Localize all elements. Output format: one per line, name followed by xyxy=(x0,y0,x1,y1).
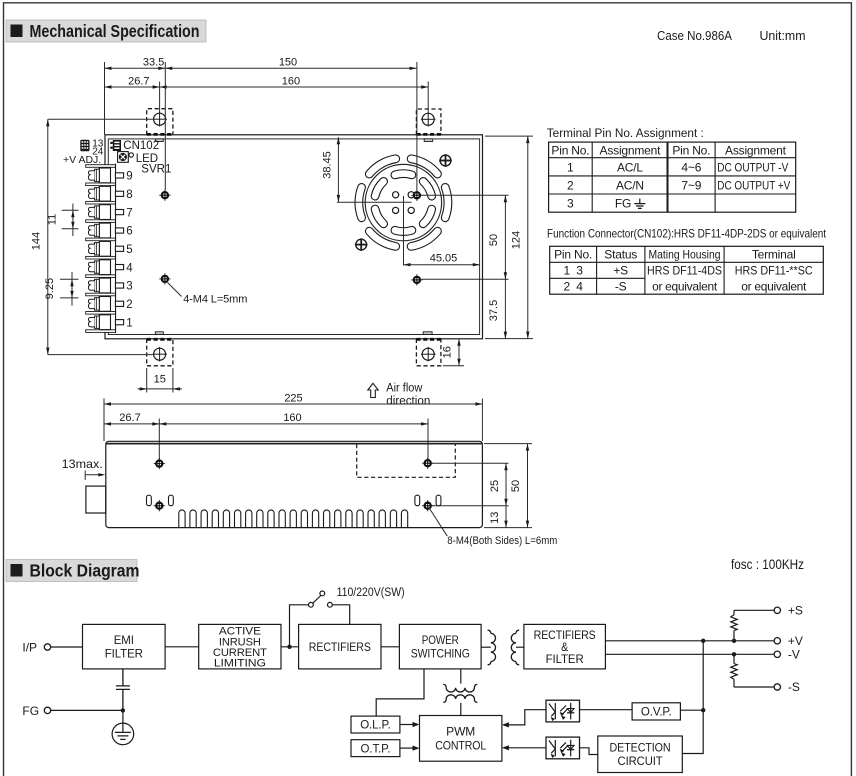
chassis edge tab bottom-left xyxy=(155,332,163,335)
svg-text:Mating Housing: Mating Housing xyxy=(649,248,721,262)
svg-text:AC/N: AC/N xyxy=(616,178,644,192)
resistor on +S sense line xyxy=(731,610,737,641)
side-view screw top-right 8-M4 xyxy=(422,458,433,469)
svg-text:Terminal Pin No. Assignment :: Terminal Pin No. Assignment : xyxy=(547,126,704,140)
node FG junction xyxy=(121,708,125,712)
DETECTION CIRCUIT block xyxy=(598,736,683,773)
terminal 3 xyxy=(88,278,123,293)
svg-text:Mechanical Specification: Mechanical Specification xyxy=(30,21,200,41)
svg-text:6: 6 xyxy=(126,226,132,238)
svg-text:+S: +S xyxy=(613,264,628,278)
wire +S sense line xyxy=(734,609,774,611)
svg-text:+S: +S xyxy=(788,603,803,617)
terminal 1 xyxy=(88,315,123,330)
mating connector icon (13/24 pins) xyxy=(80,140,89,152)
air flow direction arrow xyxy=(368,383,378,397)
svg-text:Case No.986A: Case No.986A xyxy=(657,28,732,43)
node junction +V to +S resistor xyxy=(732,639,736,643)
svg-text:110/220V(SW): 110/220V(SW) xyxy=(337,587,405,599)
side-view dimension 160 xyxy=(159,423,428,425)
side-view dimension 13 xyxy=(505,506,507,528)
header bullet square xyxy=(11,564,23,577)
terminal 5 xyxy=(88,241,123,256)
label 8-M4(Both Sides) L=6mm with leader xyxy=(430,509,448,537)
svg-text:144: 144 xyxy=(31,232,43,250)
fan mounting screw bottom-left xyxy=(356,239,367,250)
svg-text:150: 150 xyxy=(279,57,297,69)
svg-text:38.45: 38.45 xyxy=(321,151,333,179)
wire power switching to output choke xyxy=(460,669,462,684)
EMI FILTER block xyxy=(83,624,166,669)
side-view keyhole slot right A xyxy=(415,495,420,506)
side-view screw top-left 8-M4 xyxy=(154,458,165,469)
FG earth symbol in table xyxy=(634,199,645,209)
extension lines for top dimensions xyxy=(104,62,106,135)
RECTIFIERS block xyxy=(299,624,381,669)
svg-text:-S: -S xyxy=(788,680,800,694)
svg-text:5: 5 xyxy=(126,244,132,256)
svg-text:FG: FG xyxy=(22,704,39,718)
svg-text:Status: Status xyxy=(604,248,637,262)
photocoupler U2 xyxy=(546,737,580,759)
svg-text:SVR1: SVR1 xyxy=(141,163,171,175)
chassis screw top-right 4-M4 xyxy=(411,190,422,201)
LED indicator circle xyxy=(129,153,133,157)
mounting bracket bottom-left (dashed) xyxy=(147,339,173,366)
node junction -V to -S resistor xyxy=(732,652,736,656)
ACTIVE INRUSH CURRENT LIMITING block xyxy=(199,624,281,669)
dimension 33.5 (top) xyxy=(105,67,417,69)
sense bus from +V rail to detection circuit xyxy=(682,641,703,754)
bracket hole bottom-left xyxy=(154,348,166,360)
mounting bracket top-left (dashed) xyxy=(147,109,173,135)
protective earth symbol xyxy=(112,723,134,745)
svg-text:3: 3 xyxy=(126,281,132,293)
svg-text:+V ADJ.: +V ADJ. xyxy=(63,154,101,166)
PWM CONTROL block xyxy=(420,716,502,762)
wire rectifiers to power switching xyxy=(381,646,399,648)
svg-text:1: 1 xyxy=(126,317,132,329)
svg-text:DETECTION: DETECTION xyxy=(610,743,671,755)
svg-text:DC OUTPUT -V: DC OUTPUT -V xyxy=(717,160,788,174)
fan centerline vertical xyxy=(403,196,405,266)
wire choke to PWM control xyxy=(460,703,462,716)
wire junction to voltage select switch xyxy=(290,605,309,647)
svg-text:CIRCUIT: CIRCUIT xyxy=(618,756,663,768)
bracket hole top-left xyxy=(154,113,166,125)
section header bar: Mechanical Specification xyxy=(6,20,206,42)
side-view dashed cutout region xyxy=(357,444,456,477)
terminal block front plate line xyxy=(115,164,117,333)
svg-text:O.L.P.: O.L.P. xyxy=(360,720,391,732)
svg-text:8-M4(Both Sides) L=6mm: 8-M4(Both Sides) L=6mm xyxy=(447,535,557,547)
svg-text:Assignment: Assignment xyxy=(725,143,787,157)
wire junction to earth symbol xyxy=(122,710,124,723)
node junction +V to OVP bus xyxy=(701,639,705,643)
svg-text:O.T.P.: O.T.P. xyxy=(361,743,391,755)
svg-text:Function Connector(CN102):HRS: Function Connector(CN102):HRS DF11-4DP-2… xyxy=(547,227,827,241)
svg-text:Block Diagram: Block Diagram xyxy=(30,561,140,581)
svg-text:25: 25 xyxy=(489,480,501,492)
Y-capacitor EMI to ground xyxy=(116,669,130,711)
svg-text:2: 2 xyxy=(567,178,574,192)
svg-text:Assignment: Assignment xyxy=(600,143,662,157)
wire OVP to bus xyxy=(680,709,703,711)
svg-text:37.5: 37.5 xyxy=(488,300,500,321)
svg-text:LIMITING: LIMITING xyxy=(214,658,266,670)
svg-text:or equivalent: or equivalent xyxy=(741,280,807,294)
svg-text:Pin No.: Pin No. xyxy=(554,248,592,262)
side-view dimension 25 xyxy=(505,463,507,506)
side-view dimension extension lines xyxy=(103,399,105,442)
header bullet square xyxy=(11,25,23,38)
svg-text:11: 11 xyxy=(47,214,59,225)
side-view screw bottom-left 8-M4 xyxy=(154,500,165,511)
side-view screw bottom-right 8-M4 xyxy=(422,500,433,511)
side-view keyhole slot right B xyxy=(436,495,441,506)
svg-text:HRS DF11-**SC: HRS DF11-**SC xyxy=(735,264,813,278)
wire OLP to PWM with arrow xyxy=(400,724,416,726)
connector CN102 icon xyxy=(110,140,121,151)
svg-text:&: & xyxy=(561,642,568,654)
svg-text:4: 4 xyxy=(126,262,133,274)
chassis edge tab top-left xyxy=(155,139,163,142)
bracket hole bottom-right xyxy=(422,348,434,360)
wire power switching to transformer xyxy=(481,646,491,648)
svg-text:13: 13 xyxy=(489,512,501,524)
svg-text:FILTER: FILTER xyxy=(105,649,143,661)
transformer T1 primary winding xyxy=(488,630,496,665)
label 4-M4 L=5mm with leader xyxy=(168,283,182,297)
wire inrush to rectifiers xyxy=(281,646,299,648)
svg-text:FILTER: FILTER xyxy=(546,654,584,666)
svg-text:9.25: 9.25 xyxy=(44,278,56,299)
svg-text:8: 8 xyxy=(126,189,132,201)
chassis screw top-left 4-M4 xyxy=(159,190,170,201)
svg-text:-S: -S xyxy=(615,280,627,294)
output terminal +V xyxy=(774,638,780,644)
O.L.P. block xyxy=(351,716,400,733)
terminal pin assignment table grid xyxy=(549,142,796,212)
svg-text:SWITCHING: SWITCHING xyxy=(411,649,470,661)
wire FG to junction xyxy=(51,709,123,711)
potentiometer SVR1 symbol xyxy=(118,152,129,163)
svg-text:RECTIFIERS: RECTIFIERS xyxy=(309,642,371,654)
transformer T1 secondary winding xyxy=(511,630,519,665)
svg-text:fosc : 100KHz: fosc : 100KHz xyxy=(731,557,804,572)
svg-text:POWER: POWER xyxy=(422,635,459,647)
O.T.P. block xyxy=(351,740,400,757)
function connector table grid xyxy=(550,246,824,294)
terminal 2 xyxy=(88,297,123,312)
fan centerline horizontal xyxy=(337,201,412,203)
dimension 9.25 (terminal pitch) xyxy=(71,272,73,306)
svg-text:2 4: 2 4 xyxy=(563,280,583,294)
svg-text:124: 124 xyxy=(511,231,523,249)
svg-text:EMI: EMI xyxy=(114,635,134,647)
fan hub holes xyxy=(393,192,399,198)
svg-text:DC OUTPUT +V: DC OUTPUT +V xyxy=(717,178,790,192)
svg-text:-V: -V xyxy=(788,647,800,661)
dimension 13max line xyxy=(84,471,86,481)
side-view chassis body outline xyxy=(106,441,483,527)
svg-text:FG: FG xyxy=(615,197,631,211)
wire I/P to EMI filter xyxy=(51,646,83,648)
output choke winding lower xyxy=(443,695,477,703)
photocoupler U1 xyxy=(546,700,580,722)
svg-text:33.5: 33.5 xyxy=(143,57,164,69)
node junction at rectifier input xyxy=(287,645,291,649)
side-view right extension lines xyxy=(432,462,509,464)
svg-text:O.V.P.: O.V.P. xyxy=(641,707,672,719)
svg-text:1 3: 1 3 xyxy=(563,264,583,278)
switch 110/220V selector xyxy=(309,591,333,607)
POWER SWITCHING block xyxy=(399,624,481,669)
chassis edge tab bottom-right xyxy=(423,332,432,335)
output terminal -V xyxy=(774,651,780,657)
svg-text:9: 9 xyxy=(126,171,132,183)
svg-text:160: 160 xyxy=(283,412,301,424)
svg-text:26.7: 26.7 xyxy=(128,75,149,87)
dimension 11 (terminal pitch) xyxy=(72,204,74,237)
terminal 8 xyxy=(88,186,123,201)
bracket hole top-right xyxy=(422,113,434,125)
fan guard inner ring slots xyxy=(375,174,432,232)
terminal 7 xyxy=(88,205,123,220)
svg-text:Unit:mm: Unit:mm xyxy=(760,28,806,43)
wire power switching to OLP xyxy=(376,669,424,716)
side-view dimension 225 xyxy=(104,403,482,405)
fan guard outer circle xyxy=(365,164,441,240)
svg-text:50: 50 xyxy=(488,234,500,246)
resistor on -S sense line xyxy=(731,654,737,687)
wire EMI to inrush limiter xyxy=(165,646,199,648)
node junction OVP bus xyxy=(701,708,705,712)
fan mounting screw top-right xyxy=(440,155,451,166)
svg-text:or equivalent: or equivalent xyxy=(652,280,718,294)
svg-text:RECTIFIERS: RECTIFIERS xyxy=(534,630,596,642)
svg-text:4~6: 4~6 xyxy=(681,160,701,174)
svg-text:1: 1 xyxy=(567,160,574,174)
wire -S sense line xyxy=(734,686,774,688)
svg-text:Terminal: Terminal xyxy=(752,248,796,262)
side-view dimension 50 xyxy=(527,444,529,528)
output terminal -S xyxy=(774,684,780,690)
dimension 15 (bottom-left bracket) xyxy=(146,368,148,393)
svg-text:160: 160 xyxy=(282,75,300,87)
svg-text:225: 225 xyxy=(284,392,302,404)
svg-text:2: 2 xyxy=(126,299,132,311)
svg-text:Pin No.: Pin No. xyxy=(551,143,589,157)
section header bar: Block Diagram xyxy=(6,560,137,582)
svg-text:CONTROL: CONTROL xyxy=(435,740,487,752)
svg-text:Pin No.: Pin No. xyxy=(672,143,710,157)
svg-text:I/P: I/P xyxy=(22,640,37,654)
wire photocoupler U2 to PWM with arrow xyxy=(506,747,546,749)
chassis top-view inner edge lines xyxy=(108,139,479,335)
svg-text:PWM: PWM xyxy=(446,727,475,739)
terminal block separator plates xyxy=(86,165,116,333)
chassis edge tab top-right xyxy=(424,139,433,142)
wire photocoupler U1 to PWM with arrow xyxy=(506,710,546,725)
dimension 124 (right of top view) xyxy=(527,136,529,339)
terminal 4 xyxy=(88,260,123,275)
wire transformer to rectifiers-filter xyxy=(516,646,524,648)
svg-text:HRS DF11-4DS: HRS DF11-4DS xyxy=(647,264,722,278)
dimension 37.5 (right of top view) xyxy=(504,279,506,338)
wire OTP to PWM with arrow xyxy=(400,747,416,749)
chassis top-view outer outline xyxy=(105,135,483,339)
wire switch to rectifiers top xyxy=(332,605,349,625)
RECTIFIERS & FILTER block xyxy=(524,624,606,669)
svg-text:45.05: 45.05 xyxy=(430,253,458,265)
svg-text:Air flow: Air flow xyxy=(386,382,423,394)
wire photocoupler U1 to OVP xyxy=(580,709,633,711)
side-view keyhole slot left B xyxy=(169,495,174,506)
svg-text:16: 16 xyxy=(442,346,454,358)
dimension 16 (bottom-right bracket) xyxy=(458,339,460,366)
svg-text:CN102: CN102 xyxy=(123,140,159,152)
dimension 45.05 (fan center to screw) xyxy=(404,264,480,266)
mounting bracket bottom-right (dashed) xyxy=(416,339,441,366)
svg-text:+V: +V xyxy=(788,634,803,648)
side-view cover top edge thick line xyxy=(107,443,482,445)
wire photocoupler U2 to detection circuit xyxy=(580,748,598,755)
side-view terminal block protrusion xyxy=(86,486,106,513)
side-view vent slots xyxy=(179,510,408,527)
mounting bracket top-right (dashed) xyxy=(416,109,441,135)
output choke winding upper xyxy=(443,684,477,692)
fan guard outer ring slots xyxy=(359,159,448,247)
svg-text:direction: direction xyxy=(386,396,430,408)
side-view dimension 26.7 xyxy=(104,423,159,425)
svg-text:7~9: 7~9 xyxy=(681,178,701,192)
dimension 50 (right of top view) xyxy=(504,195,506,279)
output terminal +S xyxy=(774,607,780,613)
terminal 6 xyxy=(88,223,123,238)
chassis screw bottom-left 4-M4 xyxy=(159,273,170,284)
O.V.P. block xyxy=(632,703,680,720)
dimension 38.45 (fan center from top) xyxy=(337,137,339,202)
side-view keyhole slot left A xyxy=(147,495,152,506)
svg-text:AC/L: AC/L xyxy=(617,160,643,174)
chassis screw bottom-right 4-M4 xyxy=(411,274,422,285)
svg-text:13max.: 13max. xyxy=(62,457,103,471)
dimension 144 (left) xyxy=(47,119,49,354)
svg-text:7: 7 xyxy=(126,207,132,219)
svg-text:26.7: 26.7 xyxy=(119,412,140,424)
wire -V output rail xyxy=(605,653,774,655)
svg-text:3: 3 xyxy=(567,197,574,211)
extension line from right screws xyxy=(422,194,509,196)
dimension 26.7 (top) xyxy=(105,86,429,88)
svg-text:50: 50 xyxy=(510,480,522,492)
svg-text:15: 15 xyxy=(154,373,166,385)
terminal 9 xyxy=(88,168,123,183)
svg-text:4-M4 L=5mm: 4-M4 L=5mm xyxy=(183,293,247,305)
wire +V output rail xyxy=(605,640,774,642)
